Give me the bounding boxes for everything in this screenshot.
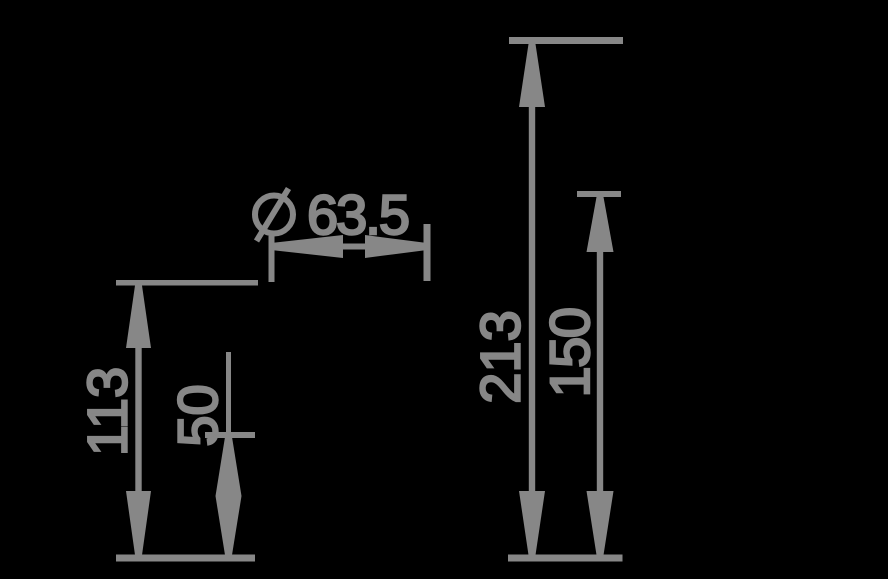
feature tick of 50 dimension xyxy=(205,432,255,438)
arrow right of Ø63.5 dimension xyxy=(365,235,427,258)
svg-text:63.5: 63.5 xyxy=(307,183,408,246)
arrow bottom of 113 dimension xyxy=(126,491,151,555)
arrow top of 213 dimension xyxy=(519,44,545,107)
arrow top of 50 dimension xyxy=(216,437,242,496)
arrow left of Ø63.5 dimension xyxy=(271,235,343,258)
arrow top of 113 dimension xyxy=(126,286,151,349)
dimension line Ø63.5 (middle segment) xyxy=(340,244,368,250)
arrow bottom of 150 dimension xyxy=(587,491,614,555)
svg-text:113: 113 xyxy=(76,367,139,456)
extension tick left of Ø63.5 dimension xyxy=(269,236,275,282)
svg-text:50: 50 xyxy=(166,384,229,446)
dimension line 150 xyxy=(597,197,603,555)
baseline feature line bottom right xyxy=(508,555,623,562)
arrow bottom of 213 dimension xyxy=(519,491,545,555)
dimension line 113 xyxy=(135,283,141,555)
feature tick top of 150 dimension xyxy=(577,191,621,197)
feature line top of 213 dimension xyxy=(509,37,623,44)
baseline feature line bottom left xyxy=(116,555,255,562)
dimension line 213 xyxy=(529,44,535,555)
svg-text:213: 213 xyxy=(469,310,532,403)
extension tick right of Ø63.5 dimension xyxy=(424,224,431,281)
arrow bottom of 50 dimension xyxy=(216,496,242,555)
arrow top of 150 dimension xyxy=(587,197,614,252)
svg-text:150: 150 xyxy=(538,309,601,398)
extension line above 50 dimension xyxy=(226,352,231,437)
diameter symbol of dimension label Ø 63.5 xyxy=(255,189,293,242)
feature line top of 113 dimension xyxy=(116,280,258,286)
